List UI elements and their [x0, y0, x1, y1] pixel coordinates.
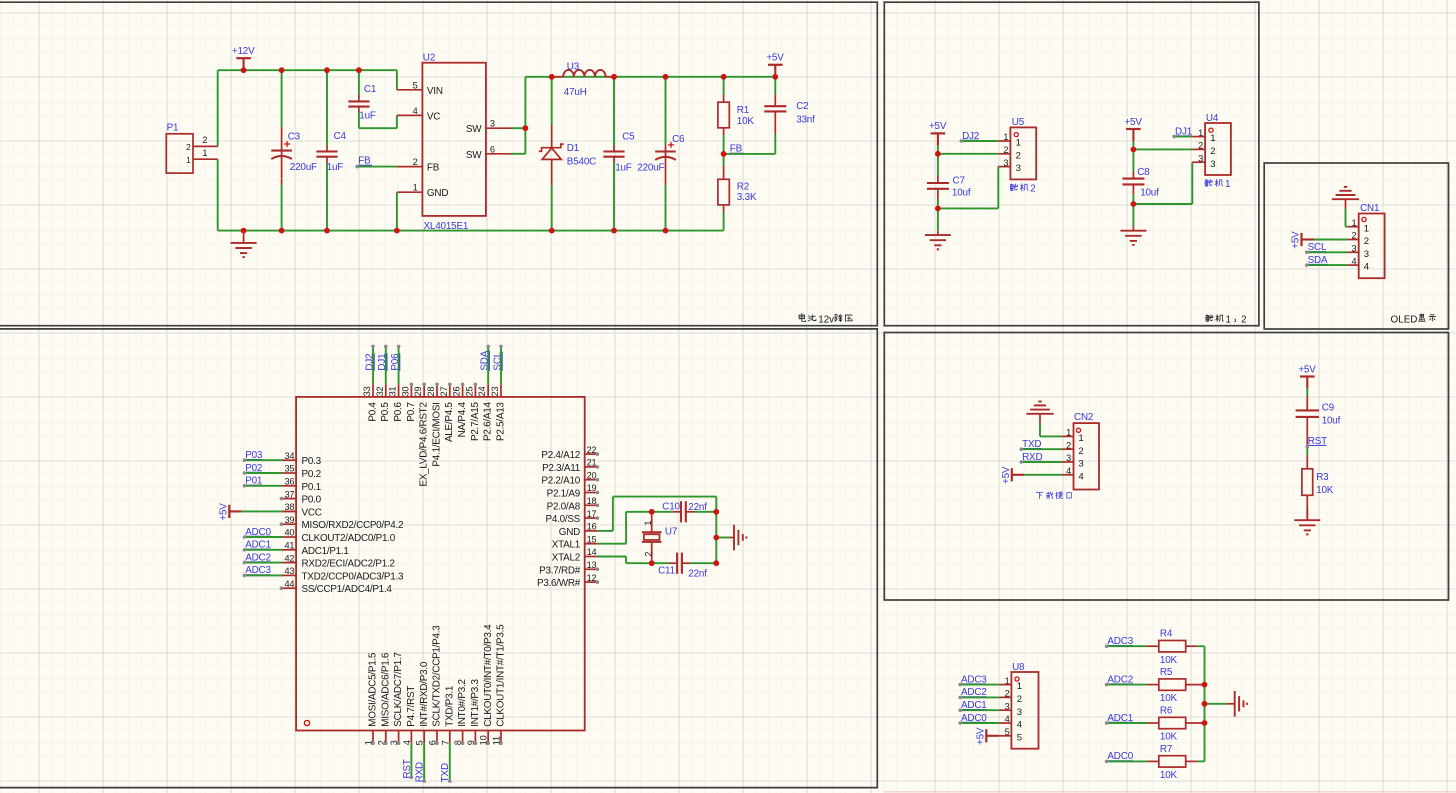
svg-text:25: 25: [464, 386, 474, 396]
wire net P01: [244, 485, 282, 487]
power flag +5V (download, rotated): [1011, 468, 1013, 481]
svg-text:1: 1: [1016, 138, 1021, 149]
capacitor C5 1uF leads: [613, 77, 615, 145]
capacitor C2 33nf leads: [774, 77, 776, 95]
wire net DJ1: [1174, 136, 1192, 138]
svg-text:P0.6: P0.6: [393, 402, 404, 422]
svg-text:GND: GND: [559, 527, 580, 538]
wire R7 to right rail: [1197, 760, 1204, 762]
svg-text:2: 2: [1210, 146, 1215, 157]
svg-text:10K: 10K: [1160, 655, 1178, 666]
wire rail to ground: [1205, 703, 1228, 705]
svg-text:+5V: +5V: [1298, 364, 1316, 375]
ground symbol (buck input): [243, 231, 245, 243]
svg-text:220uF: 220uF: [637, 162, 664, 173]
U2 pin 3 SW: [486, 127, 511, 129]
svg-text:R3: R3: [1316, 472, 1329, 483]
svg-text:2: 2: [1364, 236, 1369, 247]
svg-text:P1: P1: [167, 122, 179, 133]
U2 pin 1 GND: [397, 191, 423, 193]
block frame: OLED section: [1264, 163, 1448, 329]
svg-text:U5: U5: [1012, 117, 1025, 128]
svg-text:43: 43: [284, 566, 294, 576]
wire ground to CN2 pin1: [1039, 423, 1041, 436]
svg-text:29: 29: [413, 386, 423, 396]
MCU top pin 23 P2.5/A13: [500, 384, 502, 397]
svg-text:CLKOUT1/INT#/T1/P3.5: CLKOUT1/INT#/T1/P3.5: [496, 624, 507, 727]
svg-text:10K: 10K: [1316, 485, 1334, 496]
svg-text:3: 3: [490, 119, 495, 129]
U2 pin 5 VIN: [397, 89, 423, 91]
svg-text:13: 13: [587, 560, 597, 570]
svg-text:10uf: 10uf: [952, 188, 971, 199]
svg-text:1uF: 1uF: [615, 163, 632, 174]
connector U4: [1205, 123, 1231, 175]
wire C7 node to U5 pin3: [938, 207, 998, 209]
svg-text:C10: C10: [662, 501, 680, 512]
svg-text:MISO/ADC6/P1.6: MISO/ADC6/P1.6: [380, 652, 391, 727]
power flag +5V at VCC: [228, 505, 230, 518]
svg-text:21: 21: [587, 458, 597, 468]
MCU bottom pin 5 INT#/RXD/P3.0: [423, 731, 425, 744]
wire net RST: [410, 743, 412, 777]
MCU top pin 25 P2.7/A15: [474, 384, 476, 397]
wire +5V to C9: [1306, 389, 1308, 397]
svg-text:3: 3: [1364, 249, 1369, 260]
svg-text:16: 16: [587, 522, 597, 532]
svg-text:15: 15: [587, 534, 597, 544]
svg-text:3: 3: [1078, 459, 1083, 470]
svg-text:39: 39: [284, 515, 294, 525]
svg-text:35: 35: [284, 464, 294, 474]
svg-text:1uF: 1uF: [327, 162, 344, 173]
connector P1: [166, 134, 193, 173]
block frame: MCU section: [0, 329, 877, 788]
MCU top pin 31 P0.6: [398, 384, 400, 397]
svg-text:XTAL1: XTAL1: [552, 540, 581, 551]
svg-text:C2: C2: [796, 101, 808, 112]
MCU left pin 43 TXD2/CCP0/ADC3/P1.3: [281, 574, 296, 576]
svg-text:P2.5/A13: P2.5/A13: [495, 402, 506, 441]
capacitor C6 220uF leads: [665, 77, 667, 145]
svg-text:44: 44: [284, 579, 294, 589]
svg-text:SCLK/TXD2/CCP1/P4.3: SCLK/TXD2/CCP1/P4.3: [432, 625, 443, 727]
svg-text:P2.1/A9: P2.1/A9: [547, 489, 581, 500]
svg-text:P0.7: P0.7: [406, 402, 417, 421]
svg-text:D: D: [1410, 314, 1417, 325]
svg-text:EX_LVD/P4.6/RST2: EX_LVD/P4.6/RST2: [419, 402, 430, 486]
diode D1 B540C leads: [551, 77, 553, 125]
wire net P06: [398, 346, 400, 384]
MCU bottom pin 1 MOSI/ADC5/P1.5: [372, 731, 374, 744]
svg-text:D1: D1: [567, 143, 580, 154]
svg-text:MOSI/ADC5/P1.5: MOSI/ADC5/P1.5: [368, 652, 379, 727]
wire net ADC1: [1107, 722, 1147, 724]
wire net SDA: [487, 346, 489, 384]
svg-text:B540C: B540C: [567, 156, 596, 167]
wire top rail +12V: [218, 69, 397, 71]
capacitor C6 220uF: [655, 150, 676, 152]
svg-text:3: 3: [1016, 163, 1021, 174]
svg-text:ADC1/P1.1: ADC1/P1.1: [302, 546, 350, 557]
svg-text:CN2: CN2: [1074, 412, 1093, 423]
svg-text:1: 1: [1225, 179, 1230, 190]
wire net DJ2: [961, 140, 998, 142]
MCU left pin 40 CLKOUT2/ADC0/P1.0: [281, 536, 296, 538]
connector U5: [1010, 127, 1036, 179]
capacitor C9 10uf: [1296, 409, 1319, 411]
svg-text:1: 1: [1017, 681, 1022, 692]
svg-text:U7: U7: [665, 526, 677, 537]
MCU top pin 24 P2.6/A14: [487, 384, 489, 397]
MCU left pin 41 ADC1/P1.1: [281, 549, 296, 551]
MCU right pin 19 P2.1/A9: [585, 492, 598, 494]
wire left vertical from P1 pin2: [217, 70, 219, 146]
svg-text:P4.7/RST: P4.7/RST: [406, 686, 417, 727]
wire U2 GND to rail: [396, 192, 398, 230]
svg-text:2: 2: [643, 552, 653, 557]
MCU top pin 33 P0.4: [372, 384, 374, 397]
wire net ADC2: [960, 696, 999, 698]
svg-text:+5V: +5V: [766, 53, 784, 64]
svg-text:P4.1/ECI/MOSI: P4.1/ECI/MOSI: [431, 402, 442, 466]
svg-text:U3: U3: [567, 61, 580, 72]
svg-text:INT0#/P3.2: INT0#/P3.2: [457, 679, 468, 726]
svg-text:U2: U2: [423, 53, 435, 64]
capacitor C1 1uF leads: [358, 70, 360, 95]
svg-text:1: 1: [202, 148, 207, 158]
svg-text:1: 1: [1066, 428, 1071, 438]
wire net TXD: [1021, 448, 1061, 450]
MCU top pin 26 NA/P4.4: [462, 384, 464, 397]
svg-text:TXD2/CCP0/ADC3/P1.3: TXD2/CCP0/ADC3/P1.3: [302, 571, 404, 582]
block frame: battery 12v buck section: [0, 2, 877, 326]
wire node to ground: [1132, 204, 1134, 226]
capacitor C4 1uF: [316, 150, 337, 152]
svg-text:P3.7/RD#: P3.7/RD#: [539, 565, 581, 576]
svg-text:6: 6: [490, 144, 495, 154]
capacitor C2 33nf: [764, 105, 786, 107]
wire net ADC3: [244, 574, 282, 576]
svg-text:INT#/RXD/P3.0: INT#/RXD/P3.0: [419, 661, 430, 727]
wire net DJ2: [372, 346, 374, 384]
svg-text:3: 3: [1210, 159, 1215, 170]
svg-text:XTAL2: XTAL2: [552, 553, 580, 564]
MCU top pin 28 P4.1/ECI/MOSI: [436, 384, 438, 397]
capacitor C11 22nf: [652, 562, 669, 564]
svg-text:4: 4: [1364, 262, 1370, 273]
svg-text:7: 7: [440, 740, 450, 745]
svg-text:24: 24: [477, 386, 487, 396]
svg-text:GND: GND: [427, 188, 448, 199]
U5 value 舵机2: [1010, 184, 1017, 191]
svg-text:R6: R6: [1160, 705, 1173, 716]
svg-text:+5V: +5V: [1124, 117, 1142, 128]
wire to ground: [716, 537, 729, 539]
connector U8: [1011, 672, 1038, 749]
wire +5V to CN1 pin2: [1314, 239, 1348, 241]
svg-text:NA/P4.4: NA/P4.4: [457, 402, 468, 438]
svg-text:12: 12: [587, 573, 597, 583]
wire +5V to CN2 pin4: [1024, 474, 1061, 476]
wire net ADC0: [960, 722, 999, 724]
svg-text:VC: VC: [427, 111, 440, 122]
svg-text:P2.7/A15: P2.7/A15: [470, 402, 481, 441]
svg-text:3: 3: [1003, 158, 1008, 168]
svg-text:C11: C11: [658, 565, 676, 576]
MCU U6 body: [296, 397, 585, 731]
MCU right pin 12 P3.6/WR#: [585, 581, 598, 583]
ground symbol (download): [1039, 414, 1041, 424]
svg-text:3.3K: 3.3K: [737, 192, 757, 203]
svg-text:34: 34: [284, 451, 294, 461]
svg-text:P0.1: P0.1: [302, 482, 322, 493]
wire FB label to U2: [357, 166, 397, 168]
svg-text:23: 23: [490, 386, 500, 396]
svg-text:C1: C1: [364, 84, 377, 95]
wire net ADC0: [244, 536, 282, 538]
svg-text:3: 3: [1017, 707, 1022, 718]
svg-text:33: 33: [362, 386, 372, 396]
MCU left pin 34 P0.3: [281, 459, 296, 461]
capacitor C8 10uf leads: [1132, 149, 1134, 171]
svg-text:36: 36: [284, 477, 294, 487]
capacitor C10 22nf: [652, 511, 673, 513]
svg-text:VCC: VCC: [302, 507, 322, 518]
svg-text:4: 4: [1078, 471, 1084, 482]
svg-text:10K: 10K: [1160, 693, 1178, 704]
svg-text:P2.2/A10: P2.2/A10: [541, 476, 580, 487]
wire net DJ1: [385, 346, 387, 384]
ground symbol (reset): [1306, 508, 1308, 521]
wire net ADC3: [1107, 645, 1147, 647]
wire RST net: [1306, 445, 1308, 455]
svg-text:10K: 10K: [1160, 770, 1178, 781]
wire SW riser to output rail: [524, 77, 526, 154]
wire output rail: [525, 76, 775, 78]
svg-text:C9: C9: [1322, 403, 1335, 414]
svg-text:42: 42: [284, 553, 294, 563]
op IC U2 XL4015E1 body: [422, 63, 486, 216]
svg-text:1: 1: [1078, 433, 1083, 444]
svg-text:22nf: 22nf: [688, 569, 707, 580]
svg-text:C3: C3: [288, 131, 301, 142]
U2 pin 2 FB: [397, 166, 423, 168]
svg-text:19: 19: [587, 483, 597, 493]
wire node to ground: [937, 208, 939, 230]
MCU top pin 32 P0.5: [385, 384, 387, 397]
svg-text:2: 2: [1241, 314, 1246, 325]
capacitor C3 220uF leads: [281, 70, 283, 127]
svg-text:31: 31: [388, 386, 398, 396]
wire net SDA: [1307, 264, 1348, 266]
svg-text:4: 4: [402, 740, 412, 745]
svg-text:P2.4/A12: P2.4/A12: [541, 450, 580, 461]
svg-text:37: 37: [284, 489, 294, 499]
svg-text:3: 3: [1198, 153, 1203, 163]
ground symbol (divider): [1227, 703, 1235, 705]
svg-text:P0.2: P0.2: [302, 469, 321, 480]
svg-text:2: 2: [1003, 145, 1008, 155]
wire +5V node to U4 pin2: [1133, 148, 1192, 150]
capacitor C1 1uF: [348, 100, 369, 102]
wire right rail: [1204, 646, 1206, 761]
svg-text:2: 2: [1030, 184, 1035, 195]
wire net P02: [244, 472, 282, 474]
capacitor C3 220uF: [271, 150, 292, 152]
svg-text:CLKOUT0/INT#/T0/P3.4: CLKOUT0/INT#/T0/P3.4: [483, 624, 494, 727]
svg-text:10K: 10K: [737, 116, 755, 127]
capacitor C4 1uF leads: [326, 70, 328, 145]
ground symbol (servo 1): [1132, 226, 1134, 230]
svg-text:5: 5: [415, 740, 425, 745]
resistor R5 10K: [1159, 679, 1186, 690]
MCU right pin 21 P2.3/A11: [585, 466, 598, 468]
MCU bottom pin 11 CLKOUT1/INT#/T1/P3.5: [500, 731, 502, 744]
svg-text:18: 18: [587, 496, 597, 506]
MCU left pin 38 VCC: [281, 510, 296, 512]
svg-text:ALE/P4.5: ALE/P4.5: [444, 402, 455, 442]
capacitor C9 10uf leads: [1306, 397, 1308, 411]
wire XTAL1 pin15 to crystal: [597, 543, 626, 545]
wire R4 to right rail: [1197, 645, 1204, 647]
MCU bottom pin 10 CLKOUT0/INT#/T0/P3.4: [487, 731, 489, 744]
wire crystal right rail: [715, 512, 717, 563]
MCU right pin 14 XTAL2: [585, 556, 598, 558]
svg-text:22: 22: [587, 445, 597, 455]
MCU bottom pin 2 MISO/ADC6/P1.6: [385, 731, 387, 744]
resistor R7 10K: [1159, 756, 1186, 767]
svg-text:1: 1: [643, 521, 653, 526]
MCU top pin 27 ALE/P4.5: [449, 384, 451, 397]
wire +5V node to U5 pin2: [938, 153, 998, 155]
power flag +5V (U8, rotated): [985, 729, 987, 742]
wire +5V down to node: [1132, 141, 1134, 149]
CN2 value 下载接口: [1036, 492, 1043, 498]
svg-text:17: 17: [587, 509, 597, 519]
MCU left pin 36 P0.1: [281, 485, 296, 487]
svg-text:P0.5: P0.5: [380, 402, 391, 422]
svg-text:C8: C8: [1137, 167, 1150, 178]
wire C1 to VC pin: [359, 127, 397, 129]
block title 电池12v降压: [799, 314, 805, 322]
wire net TXD: [449, 743, 451, 781]
wire net ADC3: [960, 684, 999, 686]
MCU left pin 44 SS/CCP1/ADC4/P1.4: [281, 587, 296, 589]
svg-text:2: 2: [413, 157, 418, 167]
wire net ADC0: [1107, 760, 1147, 762]
wire bottom GND rail: [218, 230, 724, 232]
wire top rail to VIN pin: [396, 70, 398, 90]
svg-text:2: 2: [202, 135, 207, 145]
junction and endpoint dots overlay: [241, 67, 1309, 783]
svg-text:INT1#/P3.3: INT1#/P3.3: [470, 678, 481, 726]
svg-text:SW: SW: [466, 124, 482, 135]
block frame: servo section: [884, 2, 1259, 326]
MCU right pin 18 P2.0/A8: [585, 504, 598, 506]
svg-text:U4: U4: [1206, 113, 1219, 124]
svg-text:5: 5: [413, 80, 418, 90]
svg-text:+5V: +5V: [1001, 466, 1012, 484]
resistor R2 3.3K leads: [723, 154, 725, 166]
block title 舵机1，2: [1206, 315, 1213, 321]
crystal U7 leads: [651, 512, 653, 533]
wire net ADC2: [1107, 684, 1147, 686]
svg-text:10K: 10K: [1160, 732, 1178, 743]
resistor R3 10K: [1302, 469, 1313, 496]
svg-text:C7: C7: [953, 176, 965, 187]
capacitor C7 10uf: [927, 182, 949, 184]
wire R3 to ground: [1306, 508, 1308, 511]
svg-text:27: 27: [439, 386, 449, 396]
svg-text:+5V: +5V: [976, 727, 987, 745]
svg-text:1uF: 1uF: [359, 111, 376, 122]
connector CN2: [1074, 423, 1100, 489]
svg-text:P0.3: P0.3: [302, 456, 322, 467]
MCU left pin 39 MISO/RXD2/CCP0/P4.2: [281, 523, 296, 525]
svg-text:2: 2: [1017, 694, 1022, 705]
power flag +5V (reset): [1300, 375, 1315, 377]
wire +5V to U8 pin5: [999, 735, 1011, 737]
svg-text:30: 30: [400, 386, 410, 396]
svg-text:1: 1: [186, 155, 191, 165]
wire +5V to VCC: [242, 510, 283, 512]
capacitor C5 1uF: [603, 150, 624, 152]
svg-text:RXD2/ECI/ADC2/P1.2: RXD2/ECI/ADC2/P1.2: [302, 559, 395, 570]
svg-text:220uF: 220uF: [290, 162, 317, 173]
svg-text:47uH: 47uH: [564, 87, 587, 98]
resistor R6 10K: [1159, 717, 1186, 728]
svg-text:2: 2: [1016, 150, 1021, 161]
svg-text:1: 1: [1210, 133, 1215, 144]
svg-text:1: 1: [1351, 218, 1356, 228]
wire net SCL: [1307, 251, 1348, 253]
resistor R1 10K leads: [723, 77, 725, 95]
svg-text:P0.0: P0.0: [302, 495, 322, 506]
svg-text:1: 1: [1226, 314, 1231, 325]
svg-text:XL4015E1: XL4015E1: [424, 221, 469, 232]
svg-text:+5V: +5V: [1291, 231, 1302, 249]
svg-text:33nf: 33nf: [796, 115, 815, 126]
resistor R1 10K: [718, 102, 729, 128]
resistor R4 10K: [1159, 641, 1186, 652]
svg-text:P2.6/A14: P2.6/A14: [483, 402, 494, 441]
svg-text:2: 2: [186, 142, 191, 152]
MCU bottom pin 8 INT0#/P3.2: [462, 731, 464, 744]
svg-text:TXD/P3.1: TXD/P3.1: [444, 685, 455, 727]
svg-text:SCLK/ADC7/P1.7: SCLK/ADC7/P1.7: [393, 652, 404, 726]
wire net RXD: [423, 743, 425, 781]
svg-text:1: 1: [413, 183, 418, 193]
svg-text:2: 2: [1198, 141, 1203, 151]
wire net SCL: [500, 346, 502, 384]
wire FB node to C2: [724, 153, 776, 155]
P1 pin 2: [193, 145, 218, 147]
resistor R2 3.3K: [718, 179, 729, 205]
svg-text:5: 5: [1017, 732, 1022, 743]
ground symbol (servo 2): [937, 231, 939, 235]
MCU left pin 42 RXD2/ECI/ADC2/P1.2: [281, 562, 296, 564]
svg-text:+5V: +5V: [219, 503, 230, 521]
resistor R3 10K leads: [1306, 455, 1308, 469]
wire C8 node to U4 pin3: [1133, 203, 1192, 205]
wire net ADC2: [244, 562, 282, 564]
wire ground to CN1 pin1: [1345, 209, 1347, 227]
svg-text:SS/CCP1/ADC4/P1.4: SS/CCP1/ADC4/P1.4: [302, 584, 393, 595]
svg-text:P0.4: P0.4: [367, 402, 378, 422]
MCU right pin 20 P2.2/A10: [585, 479, 598, 481]
wire XTAL2 pin14 to crystal: [597, 556, 626, 558]
